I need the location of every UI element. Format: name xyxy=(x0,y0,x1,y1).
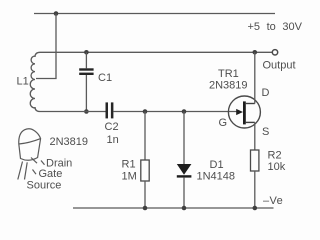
inductor L1 xyxy=(30,52,40,111)
node junction D1 bottom xyxy=(182,206,187,211)
node junction R1 bottom xyxy=(143,206,148,211)
wire gate line right xyxy=(113,111,240,113)
svg-text:Source: Source xyxy=(27,180,62,192)
svg-text:D: D xyxy=(262,87,270,99)
node junction D1 top xyxy=(182,109,187,114)
svg-text:Gate: Gate xyxy=(39,168,63,180)
resistor R1 xyxy=(141,112,149,209)
svg-text:1N4148: 1N4148 xyxy=(197,171,236,183)
node junction R1 top xyxy=(143,109,148,114)
svg-text:–Ve: –Ve xyxy=(263,195,283,207)
svg-text:R1: R1 xyxy=(122,159,136,171)
svg-text:1n: 1n xyxy=(107,134,119,146)
node junction drain xyxy=(253,50,258,55)
wire source to R2 xyxy=(254,122,256,150)
svg-text:S: S xyxy=(262,126,269,138)
svg-text:G: G xyxy=(219,117,228,129)
svg-text:10k: 10k xyxy=(268,161,286,173)
wire drain to output rail xyxy=(254,52,256,103)
svg-text:+5 to 30V: +5 to 30V xyxy=(248,21,303,33)
transistor TR1 2N3819 JFET xyxy=(228,96,260,128)
transistor package pinout drawing 2N3819 xyxy=(18,129,45,180)
wire output rail (second horizontal) xyxy=(40,51,273,53)
capacitor C1 xyxy=(79,52,93,111)
node junction on top rail xyxy=(54,11,59,16)
svg-text:L1: L1 xyxy=(17,76,29,88)
svg-text:Output: Output xyxy=(263,60,296,72)
svg-text:1M: 1M xyxy=(122,171,137,183)
svg-text:2N3819: 2N3819 xyxy=(50,136,89,148)
node junction C1 bottom xyxy=(84,109,89,114)
capacitor C2 xyxy=(106,102,114,118)
svg-text:C1: C1 xyxy=(98,72,112,84)
wire gate line left xyxy=(40,111,106,113)
node junction R2 bottom xyxy=(253,206,258,211)
diode D1 xyxy=(177,112,192,209)
wire bottom rail xyxy=(73,207,274,209)
wire top supply rail xyxy=(34,13,275,15)
output terminal circle xyxy=(272,50,277,55)
svg-text:2N3819: 2N3819 xyxy=(209,80,248,92)
svg-text:TR1: TR1 xyxy=(218,68,239,80)
node junction C1 top xyxy=(84,50,89,55)
wire vertical from top rail to coil tap xyxy=(36,14,56,79)
svg-text:R2: R2 xyxy=(268,150,282,162)
svg-text:C2: C2 xyxy=(105,121,119,133)
svg-text:D1: D1 xyxy=(210,159,224,171)
resistor R2 xyxy=(251,150,259,208)
